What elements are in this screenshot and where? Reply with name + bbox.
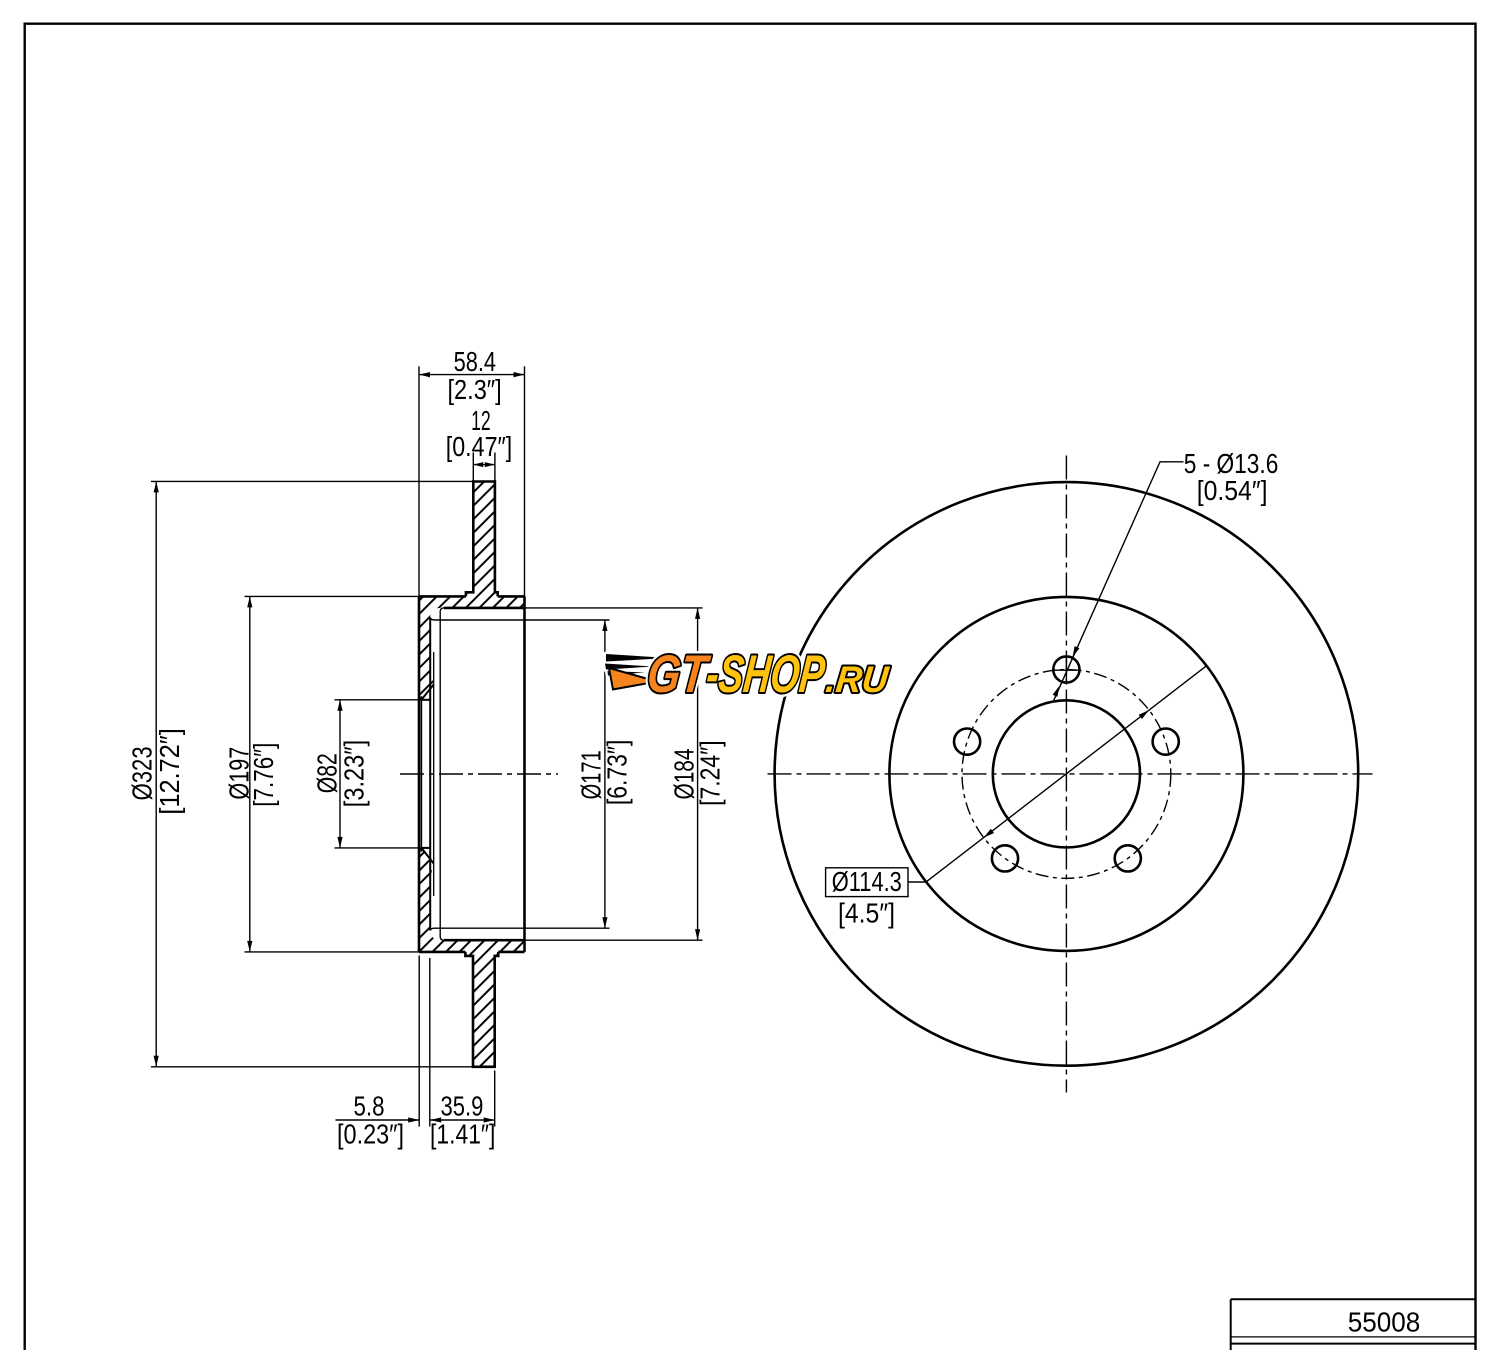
dim Ø197 bbox=[245, 595, 420, 597]
svg-text:[4.5″]: [4.5″] bbox=[838, 898, 895, 929]
bore chamfer diagonal bottom bbox=[421, 848, 433, 864]
svg-text:Ø323: Ø323 bbox=[127, 746, 158, 800]
svg-text:[12.72″]: [12.72″] bbox=[154, 728, 185, 814]
outer face chamfer top bbox=[419, 696, 421, 700]
dim Ø82 bbox=[335, 699, 422, 701]
hat outer face top (flange) bbox=[419, 595, 466, 598]
bolt hole lower right bbox=[1115, 845, 1141, 871]
drum rim right face bbox=[523, 596, 526, 952]
disc outline bottom bbox=[465, 952, 498, 1067]
bore top edge bbox=[421, 699, 430, 701]
svg-text:[0.23″]: [0.23″] bbox=[337, 1119, 404, 1150]
svg-text:[3.23″]: [3.23″] bbox=[338, 740, 369, 807]
hub bore Ø82 bbox=[993, 700, 1140, 847]
svg-text:58.4: 58.4 bbox=[454, 346, 496, 377]
svg-text:[1.41″]: [1.41″] bbox=[430, 1119, 495, 1150]
svg-text:GT: GT bbox=[645, 645, 714, 704]
vertical centerline bbox=[1065, 456, 1067, 1093]
svg-text:-SHOP: -SHOP bbox=[704, 645, 829, 704]
dim Ø171 (right) bbox=[604, 620, 606, 928]
dim 58.4 bbox=[418, 366, 420, 596]
Ø114.3 diagonal dimension bbox=[926, 666, 1207, 882]
inner circle Ø197 bbox=[889, 597, 1243, 951]
dim Ø323 bbox=[151, 480, 473, 482]
hatched solid: top half bbox=[419, 482, 525, 700]
drum lip Ø171 top bbox=[430, 618, 609, 621]
outer face chamfer bottom bbox=[419, 848, 421, 852]
section centerline bbox=[400, 773, 558, 775]
svg-text:.RU: .RU bbox=[824, 658, 892, 700]
disc outline top bbox=[466, 482, 498, 597]
svg-text:Ø114.3: Ø114.3 bbox=[832, 866, 902, 897]
dim 5.8 / 35.9 (bottom) bbox=[418, 956, 420, 1127]
bolt hole lower left bbox=[992, 845, 1018, 871]
dim 12 bbox=[472, 453, 474, 482]
hat outer face bottom bbox=[419, 951, 465, 954]
svg-text:[0.47″]: [0.47″] bbox=[446, 431, 512, 462]
hat mounting face (left) bbox=[418, 596, 421, 952]
Ø114.3 label box bbox=[826, 868, 908, 897]
bolt circle Ø114.3 (dash-dot) bbox=[962, 670, 1171, 879]
outer circle Ø323 bbox=[775, 482, 1359, 1066]
speed lines bbox=[605, 654, 669, 690]
plate inner face bbox=[429, 618, 431, 931]
svg-text:5.8: 5.8 bbox=[354, 1091, 385, 1122]
title block bbox=[1231, 1299, 1476, 1350]
svg-text:[7.76″]: [7.76″] bbox=[248, 743, 279, 807]
svg-text:[2.3″]: [2.3″] bbox=[448, 374, 502, 405]
bore chamfer silhouette bbox=[420, 696, 422, 851]
centerline solid through top hole bbox=[1054, 669, 1080, 671]
bolt hole left bbox=[954, 729, 980, 755]
svg-text:[0.54″]: [0.54″] bbox=[1197, 475, 1268, 506]
leader 5-Ø13.6 bbox=[1054, 462, 1184, 700]
svg-text:55008: 55008 bbox=[1348, 1306, 1421, 1337]
drum inner surface Ø184 bottom bbox=[444, 939, 525, 942]
bolt hole right bbox=[1153, 729, 1179, 755]
drum inner surface Ø184 top bbox=[444, 607, 525, 610]
svg-text:[6.73″]: [6.73″] bbox=[602, 740, 633, 806]
dim Ø184 (right) bbox=[525, 607, 703, 609]
inner detail line bbox=[433, 652, 435, 896]
bolt hole top bbox=[1053, 656, 1079, 682]
svg-text:[7.24″]: [7.24″] bbox=[695, 740, 726, 806]
bore bottom edge bbox=[421, 847, 430, 849]
drum lip Ø171 bottom bbox=[430, 928, 609, 930]
svg-text:35.9: 35.9 bbox=[440, 1091, 483, 1122]
bore chamfer diagonal top bbox=[421, 685, 433, 700]
hatched solid: bottom half bbox=[419, 848, 525, 1067]
horizontal centerline bbox=[768, 773, 1373, 775]
